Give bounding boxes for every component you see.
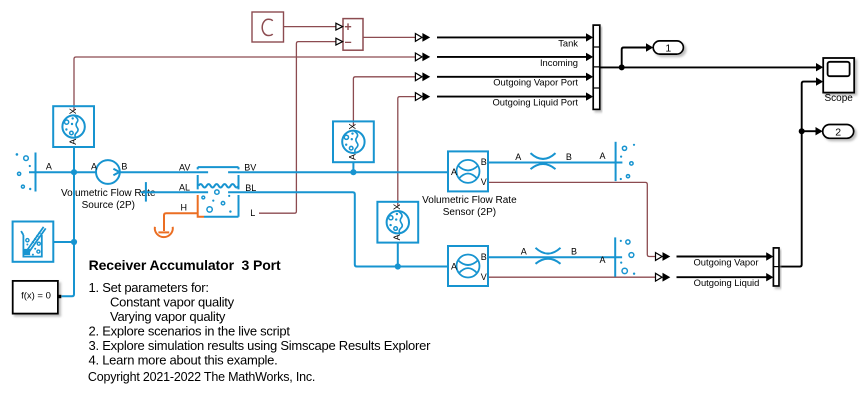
accumulator interior bubbles [202,190,232,213]
svg-text:H: H [181,202,188,212]
wire: flow sensor V to Outgoing Liquid converter [488,276,656,278]
thermal reference ground symbol [155,227,173,237]
svg-text:L: L [250,208,255,218]
svg-text:Outgoing Liquid Port: Outgoing Liquid Port [493,97,579,108]
wire: main two-phase line A row [29,171,448,173]
junction: quality sensor 3 tap [395,263,401,269]
junction at fluid properties block [71,239,77,245]
volumetric flow rate sensor 1 [448,151,488,191]
sum block (+/-) [343,19,363,51]
wire: branch to output port 1 [622,48,647,68]
svg-text:B: B [481,157,487,167]
svg-text:B: B [481,252,487,262]
svg-text:2: 2 [835,126,841,138]
left boundary wall [35,153,37,192]
receiver accumulator tank [198,167,239,217]
quality sensor 2 (Outgoing Vapor) [333,121,374,162]
PS-Simulink converter for Outgoing Liquid [656,273,663,281]
liquid line restriction valve [536,248,561,264]
svg-text:X: X [392,204,402,210]
wire: fluid properties link [54,241,74,243]
PS-Simulink converter for Outgoing Vapor Port [415,73,422,81]
svg-text:Varying vapor quality: Varying vapor quality [110,309,226,324]
quality sensor 3 (Outgoing Liquid) [377,202,418,243]
wire: quality sensor 2 A stub [352,162,354,172]
wire: liquid outlet line to boundary [488,256,622,258]
PS-Simulink converter for Outgoing Vapor [656,253,663,261]
svg-text:A: A [600,255,606,265]
svg-text:4. Learn more about this examp: 4. Learn more about this example. [89,352,278,367]
wire: accumulator L port to Sum minus input [259,42,336,214]
svg-text:f(x) = 0: f(x) = 0 [21,290,51,301]
description list [89,280,432,368]
vapor line restriction valve [531,153,556,169]
wire: Tank signal into Mux [437,36,586,38]
wire: mux output to Scope input 1 [600,66,816,68]
right boundary wall (top) [615,142,617,181]
volumetric flow rate source circle [96,160,120,184]
svg-text:B: B [121,162,127,172]
svg-text:Receiver Accumulator 3 Port: Receiver Accumulator 3 Port [89,257,281,273]
svg-text:A: A [91,161,97,171]
svg-text:A: A [600,151,606,161]
svg-text:Incoming: Incoming [540,57,578,68]
wire: Outgoing Vapor Port signal into Mux [437,76,586,78]
wire: sensor X to Incoming converter [74,57,415,110]
svg-text:Scope: Scope [825,93,854,104]
svg-text:A: A [521,246,527,256]
wire: bottom mux output up to Scope input 2 [779,82,816,267]
svg-text:V: V [481,272,487,282]
svg-text:A: A [451,167,457,177]
constant block C [252,12,284,42]
svg-text:AV: AV [179,163,190,173]
svg-text:A: A [515,152,521,162]
two-phase fluid properties block (beaker icon) [13,222,54,262]
svg-text:Tank: Tank [558,37,578,48]
wire: Outgoing Liquid Port signal into Mux [437,96,586,98]
svg-text:Source (2P): Source (2P) [82,200,135,211]
svg-text:A: A [68,139,78,145]
PS-Simulink converter for Incoming [415,53,422,61]
svg-text:Outgoing Vapor: Outgoing Vapor [694,256,759,267]
wire: quality sensor 3 A stub [397,243,399,267]
svg-text:3. Explore simulation results: 3. Explore simulation results using Sims… [89,338,432,353]
solver configuration block f(x)=0 [13,281,58,314]
wire: branch to output port 2 [802,130,816,132]
left boundary bubbles [16,153,32,190]
mux (bottom, 2 inputs) [773,248,779,286]
quality sensor 1 (Incoming) [53,106,94,147]
svg-text:Sensor (2P): Sensor (2P) [443,207,496,218]
svg-text:Constant vapor quality: Constant vapor quality [110,294,235,309]
volumetric flow rate sensor 2 [448,246,488,286]
svg-text:X: X [347,123,357,129]
wire: C to Sum plus input [284,26,336,28]
svg-text:B: B [566,152,572,162]
svg-text:BV: BV [244,163,256,173]
wire: main vertical to solver/properties [62,172,75,296]
sum input port arrows [336,23,343,30]
svg-text:A: A [392,234,402,240]
output port 2 [823,125,854,139]
wire: Sum output to Tank converter [363,36,415,38]
top boundary bubbles [620,144,635,180]
svg-text:2. Explore scenarios in the li: 2. Explore scenarios in the live script [89,323,291,338]
output port 1 [653,41,683,54]
svg-text:1. Set parameters for:: 1. Set parameters for: [89,280,209,295]
svg-text:1: 1 [665,42,671,54]
PS-Simulink converter for Tank [415,34,422,42]
svg-text:X: X [67,108,77,114]
wire: flow sensor V to Outgoing Vapor converter [488,182,656,256]
wire overlay: main vertical over label [73,183,75,215]
wire: accumulator H port to thermal reference [164,213,198,231]
wire: BL line down to bottom flow sensor [228,192,448,266]
svg-text:Copyright 2021-2022 The MathWo: Copyright 2021-2022 The MathWorks, Inc. [88,370,315,384]
svg-text:AL: AL [179,183,190,193]
wire: AL capped stub [141,182,208,202]
Scope block [823,58,854,93]
wire: Outgoing Vapor signal into bottom mux [677,256,767,258]
svg-text:–: – [345,35,352,49]
svg-text:A: A [451,262,457,272]
PS-Simulink converter for Outgoing Liquid Port [415,93,422,101]
junction to Out1 [619,64,625,70]
wire: Incoming signal into Mux [437,56,586,58]
wire: quality sensor 1 A port stub [73,147,75,172]
junction at source inlet [71,169,77,175]
wire: vapor outlet line to boundary [488,162,622,164]
mux (top, 4 inputs) [593,25,600,109]
junction to Out2 [799,128,805,134]
svg-text:A: A [348,154,358,160]
svg-text:B: B [571,246,577,256]
svg-text:Volumetric Flow Rate: Volumetric Flow Rate [422,195,517,206]
right boundary wall (bottom) [614,237,616,276]
wire: Outgoing Liquid signal into bottom mux [677,276,767,278]
wire: sensor X to Outgoing Vapor Port converter [353,77,415,126]
junction: quality sensor 2 tap [350,169,356,175]
wire: sensor X to Outgoing Liquid Port converter [398,97,416,206]
svg-text:Volumetric Flow Rate: Volumetric Flow Rate [61,188,156,199]
svg-text:A: A [46,162,52,172]
svg-text:Outgoing Liquid: Outgoing Liquid [694,277,760,288]
svg-text:V: V [481,177,487,187]
svg-text:Outgoing Vapor Port: Outgoing Vapor Port [493,77,578,88]
bottom boundary bubbles [620,240,636,275]
accumulator orange H-side edge [198,195,204,217]
svg-text:+: + [344,20,351,34]
